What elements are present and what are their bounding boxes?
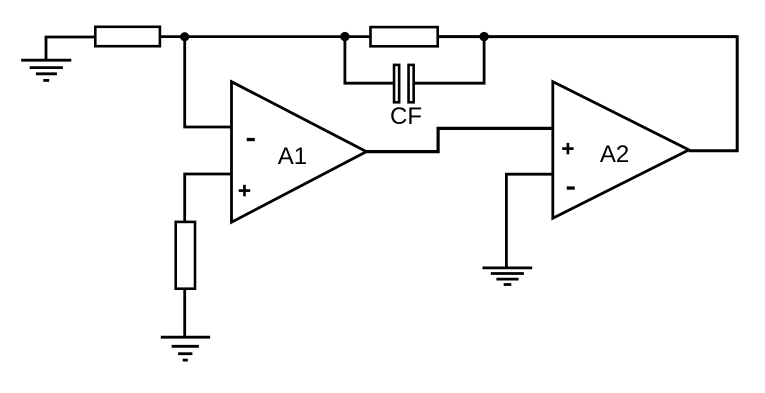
resistor (feedback, top)	[371, 27, 438, 46]
wire right side: output feedback down to A2 output	[736, 35, 739, 151]
op-amp A1	[232, 82, 367, 223]
wire ground to input resistor	[45, 36, 96, 39]
wire A1 inverting input from top node	[185, 37, 232, 127]
node (right terminal of CF parallel pair)	[479, 32, 488, 41]
svg-text:CF: CF	[390, 103, 422, 130]
wire resistor to ground	[183, 289, 186, 337]
capacitor CF (left plate)	[394, 65, 399, 102]
ground (below A1 input resistor)	[161, 337, 210, 360]
resistor (to ground at A1 non-inverting input)	[176, 222, 195, 289]
wire top net: feedback resistor to top-right corner	[438, 35, 737, 38]
svg-text:A2: A2	[600, 141, 629, 168]
resistor (input series)	[95, 27, 160, 46]
wire A1 output to A2 non-inverting input	[365, 128, 553, 151]
A1 inverting input mark (-)	[247, 138, 255, 141]
svg-text:A1: A1	[278, 143, 307, 170]
wire A2 output	[689, 149, 739, 152]
wire A1 non-inverting input to bottom resistor	[185, 174, 232, 222]
A1 non-inverting input mark (+)	[239, 185, 251, 197]
node (junction at A1 inverting input branch)	[180, 32, 189, 41]
A2 non-inverting input mark (+)	[562, 143, 573, 154]
wire A2 inverting input to ground branch	[506, 174, 552, 267]
node (left terminal of CF parallel pair)	[340, 32, 349, 41]
ground (at A2 inverting input)	[483, 268, 533, 285]
A2 inverting input mark (-)	[567, 186, 575, 189]
wire capacitor branch, left leg	[345, 37, 393, 84]
op-amp A2	[553, 82, 689, 219]
wire capacitor branch, right leg	[415, 37, 484, 84]
wire top net: resistor to feedback resistor	[160, 35, 370, 38]
ground (input, top-left)	[21, 37, 71, 80]
capacitor CF (right plate)	[409, 65, 414, 102]
